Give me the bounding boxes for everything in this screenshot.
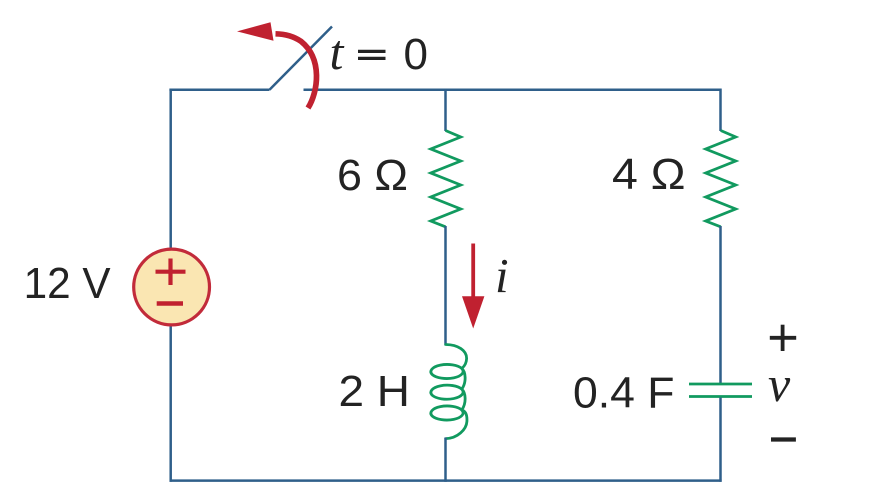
- wire left branch: [169, 89, 172, 482]
- wire top-left segment: [169, 89, 269, 92]
- svg-text:6 Ω: 6 Ω: [337, 151, 408, 200]
- svg-text:4 Ω: 4 Ω: [612, 150, 686, 199]
- label - (v polarity): [771, 437, 796, 441]
- svg-text:v: v: [768, 356, 791, 412]
- wire bottom: [170, 479, 722, 482]
- wire middle branch bottom: [444, 438, 447, 482]
- svg-text:i: i: [495, 248, 509, 303]
- wire right branch bottom: [719, 398, 722, 482]
- wire top-right segment: [304, 89, 722, 92]
- svg-text:12 V: 12 V: [24, 259, 112, 308]
- voltage source V1 12V: [134, 249, 210, 325]
- switch closing arc arrow: [237, 22, 317, 108]
- svg-text:0.4 F: 0.4 F: [573, 368, 675, 417]
- svg-text:2 H: 2 H: [339, 367, 411, 416]
- label t = 0: [330, 24, 428, 80]
- wire middle branch top: [444, 89, 447, 131]
- wire middle branch mid: [444, 226, 447, 346]
- label + (v polarity): [770, 325, 796, 351]
- resistor R 6ohm: [431, 131, 461, 227]
- resistor R 4ohm: [706, 131, 736, 227]
- svg-text:t: t: [330, 24, 345, 80]
- current arrow i: [462, 244, 484, 329]
- wire right branch top: [719, 89, 722, 131]
- wire right branch mid: [719, 226, 722, 383]
- switch blade: [270, 27, 333, 90]
- svg-text:0: 0: [404, 30, 428, 79]
- capacitor C 0.4F: [689, 384, 752, 397]
- inductor L 2H: [431, 345, 467, 439]
